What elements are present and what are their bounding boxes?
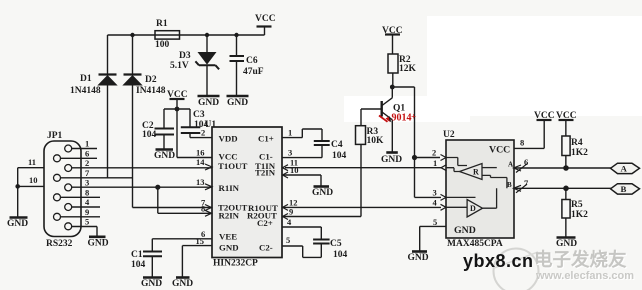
svg-text:R1IN: R1IN [219, 183, 240, 193]
svg-text:2: 2 [85, 158, 89, 168]
svg-text:电子发烧友: 电子发烧友 [534, 249, 627, 270]
svg-text:8: 8 [201, 203, 205, 213]
svg-text:1K2: 1K2 [571, 148, 588, 158]
svg-text:GND: GND [312, 188, 333, 198]
svg-text:R1: R1 [156, 19, 168, 29]
svg-text:D: D [470, 204, 476, 213]
svg-text:2: 2 [432, 148, 436, 158]
svg-text:6: 6 [85, 148, 89, 158]
svg-text:C2+: C2+ [257, 218, 273, 228]
svg-text:A: A [508, 161, 513, 169]
svg-text:HIN232CP: HIN232CP [213, 259, 258, 269]
svg-text:10K: 10K [367, 136, 385, 146]
svg-text:VCC: VCC [556, 111, 577, 121]
svg-text:VCC: VCC [255, 14, 276, 24]
svg-text:104: 104 [332, 151, 347, 161]
svg-text:D3: D3 [179, 51, 191, 61]
svg-text:GND: GND [227, 98, 248, 108]
svg-text:8: 8 [520, 138, 524, 148]
svg-text:C6: C6 [246, 56, 258, 66]
svg-text:GND: GND [408, 253, 429, 263]
svg-text:R5: R5 [571, 200, 583, 210]
svg-text:GND: GND [7, 219, 28, 229]
svg-text:C1-: C1- [259, 152, 273, 162]
svg-text:9: 9 [85, 207, 89, 217]
svg-text:1: 1 [288, 128, 292, 138]
svg-text:C4: C4 [331, 140, 343, 150]
svg-text:B: B [507, 181, 512, 189]
svg-text:D2: D2 [145, 75, 157, 85]
svg-text:GND: GND [88, 238, 109, 248]
svg-text:16: 16 [196, 148, 205, 158]
svg-text:5.1V: 5.1V [170, 61, 189, 71]
svg-text:47uF: 47uF [243, 67, 264, 77]
svg-text:ybx8.cn: ybx8.cn [463, 251, 534, 271]
svg-text:T2IN: T2IN [255, 168, 276, 178]
svg-text:3: 3 [288, 148, 292, 158]
svg-text:VEE: VEE [219, 232, 237, 242]
svg-text:10: 10 [290, 165, 299, 175]
svg-text:14: 14 [196, 157, 205, 167]
svg-text:VCC: VCC [382, 26, 403, 36]
svg-text:1: 1 [433, 158, 437, 168]
svg-text:R4: R4 [571, 138, 583, 148]
svg-text:3: 3 [433, 187, 437, 197]
svg-text:5: 5 [433, 217, 437, 227]
svg-text:D1: D1 [80, 74, 92, 84]
svg-text:VCC: VCC [489, 145, 510, 156]
svg-text:15: 15 [196, 236, 205, 246]
svg-text:R2IN: R2IN [219, 210, 240, 220]
svg-text:GND: GND [381, 155, 402, 165]
svg-text:12K: 12K [399, 64, 417, 74]
svg-text:MAX485CPA: MAX485CPA [447, 239, 503, 249]
svg-text:8: 8 [85, 187, 89, 197]
svg-text:5: 5 [286, 235, 290, 245]
svg-text:www.elecfans.com: www.elecfans.com [535, 270, 634, 282]
svg-text:B: B [621, 184, 627, 194]
svg-text:JP1: JP1 [47, 131, 63, 141]
svg-text:9: 9 [289, 207, 293, 217]
svg-text:1N4148: 1N4148 [70, 86, 101, 96]
svg-text:GND: GND [198, 98, 219, 108]
svg-text:5: 5 [85, 216, 89, 226]
svg-text:GND: GND [219, 243, 239, 253]
svg-text:IN4148: IN4148 [136, 86, 166, 96]
svg-text:T1OUT: T1OUT [218, 161, 247, 171]
svg-text:U1: U1 [205, 120, 217, 130]
svg-text:VDD: VDD [219, 134, 238, 144]
svg-text:VCC: VCC [167, 90, 188, 100]
svg-text:9014: 9014 [392, 112, 412, 123]
svg-text:104: 104 [333, 250, 348, 260]
svg-text:U2: U2 [443, 130, 455, 140]
svg-text:GND: GND [454, 225, 476, 236]
svg-text:1K2: 1K2 [571, 210, 588, 220]
svg-text:13: 13 [196, 177, 205, 187]
svg-text:C1+: C1+ [258, 134, 274, 144]
svg-text:A: A [621, 163, 628, 173]
svg-text:GND: GND [556, 239, 577, 249]
svg-text:C3: C3 [193, 110, 205, 120]
svg-text:R: R [473, 168, 479, 177]
svg-text:100: 100 [155, 40, 170, 50]
svg-text:+: + [411, 112, 416, 122]
svg-text:RS232: RS232 [46, 239, 73, 249]
svg-text:2: 2 [201, 128, 205, 138]
svg-text:104: 104 [131, 260, 146, 270]
svg-text:104: 104 [142, 130, 157, 140]
svg-text:GND: GND [172, 279, 193, 289]
svg-text:VCC: VCC [219, 152, 238, 162]
svg-text:1: 1 [85, 139, 89, 149]
svg-text:VCC: VCC [534, 111, 555, 121]
svg-text:C1: C1 [131, 250, 143, 260]
svg-text:10: 10 [29, 175, 38, 185]
svg-text:6: 6 [524, 157, 528, 167]
svg-text:11: 11 [28, 157, 36, 167]
svg-text:3: 3 [85, 177, 89, 187]
svg-text:GND: GND [154, 151, 175, 161]
svg-text:C2-: C2- [259, 242, 273, 252]
svg-text:GND: GND [141, 279, 162, 289]
svg-text:C5: C5 [330, 239, 342, 249]
